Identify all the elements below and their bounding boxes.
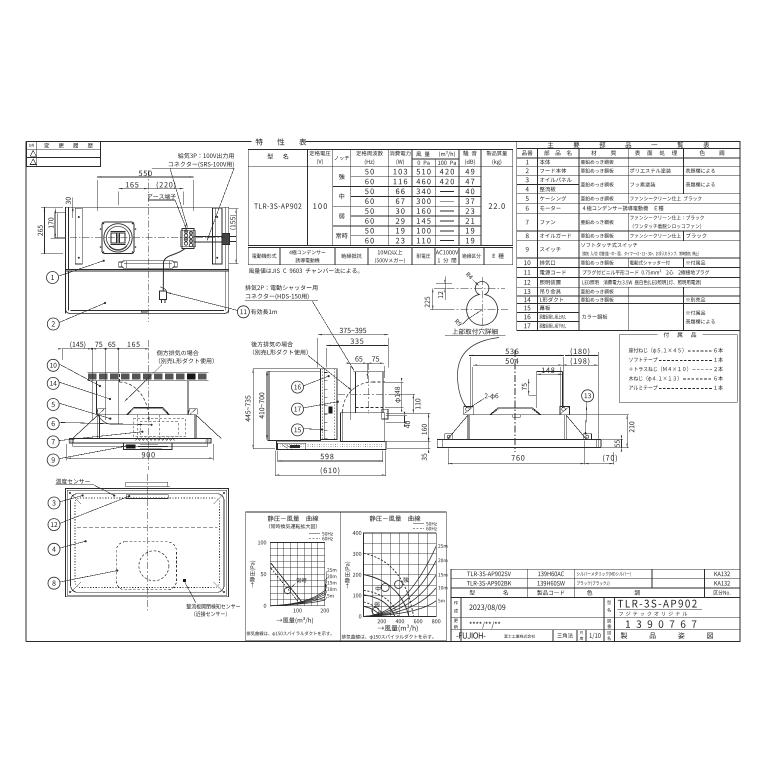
label: upper mounting hole detail xyxy=(445,328,506,335)
label 2-phi6 xyxy=(469,393,498,408)
dimension 110 (side) xyxy=(390,394,420,413)
box: accessories xyxy=(619,332,737,402)
view: rear body xyxy=(447,408,586,440)
dimension 165 / (220) xyxy=(118,181,183,205)
centerline: top view vertical xyxy=(147,170,149,322)
dimension 225 (keyhole) xyxy=(425,288,447,310)
centerline: top view horizontal through motor xyxy=(70,237,225,239)
view: rear duct stub and posts xyxy=(470,352,598,448)
label: rectifier open-close sensor xyxy=(183,579,240,617)
callouts bottom view xyxy=(48,494,84,509)
dimension 55 (rear) xyxy=(602,435,623,451)
view: side back panel xyxy=(268,371,320,440)
dimension 335 xyxy=(326,339,388,368)
label: side exhaust case xyxy=(125,350,214,401)
arrow: detail pointer xyxy=(457,338,499,408)
dimension 170 xyxy=(48,209,56,239)
callouts front view xyxy=(47,359,101,387)
dimension phi148 xyxy=(385,378,404,412)
dimension 35 (side) xyxy=(387,438,431,461)
view: front switch box xyxy=(124,443,173,449)
note: JIS measurement xyxy=(249,268,360,273)
view: front chimney xyxy=(88,372,209,414)
dimension 504 xyxy=(473,358,598,366)
view: side chimney column with adjustment ruler xyxy=(320,369,337,440)
detail: upper mounting hole (keyhole) xyxy=(447,277,508,328)
graph: static pressure curve (continuous vent enlarged) xyxy=(246,512,341,641)
table: characteristics xyxy=(248,150,512,246)
centerline: front view vertical xyxy=(147,340,149,470)
dimension 760 xyxy=(448,441,584,465)
table: title block xyxy=(451,569,740,641)
dimension 65 75 (side) xyxy=(347,356,384,420)
view: side bottom plate xyxy=(277,441,386,450)
centerline: bottom view xyxy=(147,474,149,612)
view: front louver slots xyxy=(88,373,207,379)
graph: static pressure curve (main) xyxy=(341,512,448,641)
label: exhaust connector 2P xyxy=(245,285,354,371)
view: top motor assembly xyxy=(100,222,137,254)
label: temperature sensor xyxy=(56,479,116,497)
dimension 265 xyxy=(38,207,63,253)
dimension 900 xyxy=(67,444,213,461)
dimension 160 (side) xyxy=(386,413,431,441)
view: rear bottom plate xyxy=(437,434,601,448)
label: earth terminal xyxy=(148,194,187,229)
view: front hood body xyxy=(73,408,222,441)
view: top (plan) body xyxy=(66,207,229,313)
view: rear hanger brackets xyxy=(464,407,570,415)
dimension 598 xyxy=(278,451,383,462)
dimension 536 xyxy=(469,348,598,356)
view: side casing and duct xyxy=(341,372,388,442)
dimension 410~700 xyxy=(259,371,267,439)
dimension (70) xyxy=(585,452,617,465)
callout 1 xyxy=(47,260,105,284)
view: front L-duct dashed (side exhaust) xyxy=(92,349,149,425)
callout 11 effective length 1m xyxy=(167,293,277,318)
label: supply connector 3P xyxy=(152,153,234,241)
centerline: rear view xyxy=(514,350,516,452)
view: bottom oil panel xyxy=(71,494,224,593)
table: motor info xyxy=(248,247,512,264)
view: top handle bar xyxy=(119,261,178,269)
dimension (145) 75 65 165 (front) xyxy=(58,341,149,360)
view: top left hanger rail xyxy=(75,208,82,264)
view: top left outlet step xyxy=(55,213,66,238)
adjust screw mark (side view) xyxy=(329,407,333,414)
table: change history xyxy=(26,142,100,167)
drawing frame xyxy=(26,142,740,642)
centerline: side duct xyxy=(338,363,390,414)
view: front bottom plate xyxy=(69,439,211,447)
dimension (610) xyxy=(275,451,386,477)
dimension 445~735 xyxy=(245,369,320,449)
table: main parts list xyxy=(517,141,740,330)
view: bottom rectifier plate opening xyxy=(116,542,176,590)
label: rear exhaust case xyxy=(251,341,352,390)
label R9 xyxy=(455,319,469,327)
dimension 210 (rear) xyxy=(568,415,634,448)
dimension (155) xyxy=(229,209,238,264)
dimension 12 (keyhole) xyxy=(436,277,452,301)
table: characteristics title xyxy=(256,138,307,145)
callout 13 xyxy=(582,390,594,435)
dimension 550 xyxy=(97,171,193,211)
dimension 30 xyxy=(66,197,74,218)
callout 2 xyxy=(47,302,106,330)
label R4 xyxy=(466,272,479,285)
callouts side view xyxy=(292,375,330,393)
dimension 148 (rear) xyxy=(537,367,563,375)
dimension 75 (rear) xyxy=(522,379,536,395)
view: top right hanger rail xyxy=(213,208,223,264)
view: top power cord and plug xyxy=(160,249,186,304)
view: bottom outer panel xyxy=(66,482,229,596)
view: top terminal block and supply connector xyxy=(181,229,237,249)
dimension 375~395 xyxy=(318,328,389,368)
dimension 40 (side) xyxy=(386,412,410,428)
